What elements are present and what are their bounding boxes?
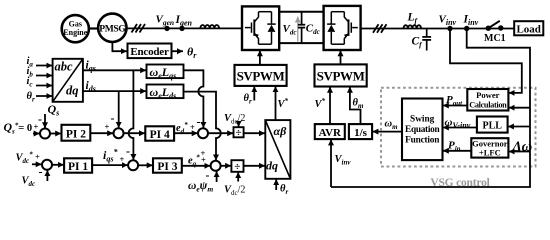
wire omega_m swing to 1/s	[372, 119, 402, 132]
wire PI3 to sum F	[182, 165, 211, 167]
wire divider1 to ab/dq	[244, 132, 265, 134]
svg-text:+: +	[105, 122, 110, 132]
svg-text:Igen: Igen	[175, 14, 193, 28]
wire Pout power calc to swing	[443, 94, 468, 108]
svg-text:Iinv: Iinv	[463, 14, 479, 28]
svg-text:SVPWM: SVPWM	[317, 69, 365, 84]
svg-text:Pout: Pout	[446, 94, 463, 108]
svg-text:PMSG: PMSG	[99, 23, 126, 34]
encoder output theta_r	[172, 45, 198, 61]
gas engine	[62, 15, 89, 42]
svg-text:iqs: iqs	[86, 59, 96, 73]
IGBT rectifier	[245, 12, 259, 45]
PLL block	[477, 117, 508, 133]
svg-text:Load: Load	[516, 24, 540, 36]
wire iqs	[83, 59, 146, 73]
wire PMSG to encoder	[112, 42, 126, 51]
svg-text:Vgen: Vgen	[156, 14, 175, 28]
wire omega_e L_qs to sum C (hop at ids row)	[184, 70, 204, 128]
svg-text:Δω: Δω	[512, 139, 533, 155]
node Vgen	[156, 14, 175, 32]
wire Vinv feedback into AVR	[331, 139, 351, 187]
encoder block	[128, 44, 172, 59]
wire Pin governor to swing	[443, 140, 472, 154]
PI 1 block	[64, 158, 92, 173]
summing junction D	[42, 160, 52, 170]
PI 2 block	[62, 125, 91, 141]
svg-text:Qs*= 0: Qs*= 0	[4, 120, 33, 136]
wire A to PI2	[50, 133, 61, 135]
wire V* AVR to SVPWM2	[315, 87, 331, 124]
summing junction E	[128, 160, 138, 170]
label Vdc/2 top	[224, 113, 245, 127]
svg-text:V*: V*	[278, 97, 289, 110]
wire divider2 to ab/dq	[244, 165, 266, 167]
input thetar	[27, 91, 53, 104]
wire PMSG to rectifier	[127, 27, 243, 29]
wire PI4 to sum C	[174, 132, 198, 134]
power calculation block	[467, 89, 508, 111]
svg-text:θm: θm	[353, 98, 364, 111]
wire omega_V-inv PLL to swing	[443, 117, 477, 131]
node Vinv	[439, 14, 457, 32]
input thetar to ab/dq	[276, 179, 288, 196]
swing equation function block	[402, 99, 443, 161]
svg-text:Cf: Cf	[412, 36, 424, 50]
svg-text:ωeLds: ωeLds	[150, 85, 177, 101]
IGBT inverter	[344, 12, 358, 45]
SVPWM inverter-side block	[315, 64, 367, 86]
svg-text:Qs: Qs	[48, 102, 60, 118]
PI 3 block	[153, 158, 182, 173]
wire C to divider1 (hop over Lds drop)	[208, 132, 233, 134]
svg-text:dq: dq	[266, 159, 278, 173]
svg-text:PI 2: PI 2	[66, 129, 86, 141]
wire ids drop to sum B	[111, 91, 119, 128]
VSG control dashed box	[381, 88, 536, 167]
wire F to divider2	[221, 165, 232, 167]
shaft wire	[89, 27, 98, 29]
svg-text:+: +	[120, 154, 125, 164]
three-phase slashes inverter side	[373, 24, 387, 33]
svg-text:PLL: PLL	[482, 121, 502, 132]
wire Iinv node feedback bus	[331, 31, 530, 187]
svg-text:ωm: ωm	[385, 119, 399, 132]
svg-text:+: +	[190, 122, 195, 132]
svg-text:Vdc: Vdc	[22, 176, 36, 189]
svg-text:+: +	[35, 152, 40, 162]
svg-text:Vdc/2: Vdc/2	[224, 185, 245, 198]
wire PI1 to sum E	[92, 164, 128, 166]
wire B to PI4	[124, 132, 146, 134]
svg-text:Swing: Swing	[410, 115, 435, 125]
svg-text:Engine: Engine	[63, 28, 87, 37]
svg-text:÷: ÷	[235, 127, 241, 139]
svg-text:-: -	[197, 115, 201, 129]
svg-text:θr: θr	[280, 184, 288, 197]
input Qs	[38, 102, 59, 128]
svg-text:÷: ÷	[234, 161, 240, 173]
PI 4 block	[145, 126, 174, 141]
node Igen	[175, 14, 193, 31]
wire E to PI3	[138, 164, 153, 166]
svg-text:Equation: Equation	[405, 125, 440, 135]
svg-text:+: +	[201, 148, 206, 158]
svg-text:1/s: 1/s	[354, 127, 368, 139]
svg-text:Power: Power	[476, 90, 500, 100]
capacitor Cdc	[298, 12, 320, 43]
load block	[514, 21, 543, 35]
svg-text:-: -	[111, 111, 115, 125]
svg-text:AVR: AVR	[319, 127, 342, 139]
input omega_e psi_m	[188, 168, 217, 194]
wire PI2 to sum B	[90, 132, 113, 134]
Vdc arrow gray	[283, 17, 298, 42]
dc bus rails	[279, 12, 323, 43]
svg-text:MC1: MC1	[484, 33, 506, 44]
svg-text:-: -	[38, 112, 42, 126]
svg-text:abc: abc	[55, 60, 74, 74]
input ic	[27, 76, 53, 89]
integrator 1/s block	[349, 124, 372, 139]
svg-text:ωeLqs: ωeLqs	[150, 65, 177, 81]
wire D to PI1	[52, 164, 64, 166]
svg-text:dq: dq	[66, 84, 79, 98]
svg-text:-: -	[39, 165, 43, 179]
wire Vdc* to sum D	[32, 163, 42, 165]
svg-text:αβ: αβ	[274, 124, 288, 138]
wire omega_e L_ds to sum F (hop at row1)	[184, 92, 221, 161]
svg-text:Encoder: Encoder	[130, 46, 169, 58]
inductor generator side	[200, 25, 219, 28]
label Vdc/2 bottom	[224, 172, 245, 197]
inductor Lf	[404, 12, 422, 29]
diode inverter	[327, 12, 344, 45]
wire theta_m 1/s to SVPWM2	[350, 87, 364, 124]
svg-text:θr: θr	[27, 91, 35, 104]
wire SVPWM1 to rectifier	[259, 50, 261, 65]
svg-text:Vinv: Vinv	[439, 14, 457, 28]
block omega_e L_ds	[147, 85, 184, 101]
wire ids	[83, 80, 146, 94]
summing junction B	[114, 128, 124, 138]
svg-text:PI 1: PI 1	[68, 161, 88, 173]
governor+LFC block	[471, 138, 508, 157]
branch to power calc input2	[509, 107, 530, 109]
svg-text:Cdc: Cdc	[306, 23, 320, 37]
svg-text:Vdc*: Vdc*	[16, 151, 34, 166]
svg-text:Lf: Lf	[407, 12, 419, 26]
svg-text:Pin: Pin	[448, 140, 461, 154]
svg-text:Vdc/2: Vdc/2	[224, 113, 245, 126]
input ib	[27, 66, 53, 79]
svg-text:θr: θr	[187, 45, 197, 61]
diode rectifier	[259, 12, 276, 45]
svg-text:θr: θr	[244, 93, 252, 106]
AVR block	[315, 124, 345, 139]
summing junction C	[198, 128, 208, 138]
contactor MC1	[484, 21, 506, 44]
input thetar to SVPWM1	[244, 86, 255, 105]
inverter block	[324, 6, 361, 50]
svg-text:PI 4: PI 4	[150, 129, 170, 141]
svg-text:Vinv: Vinv	[335, 154, 352, 167]
svg-text:Calculation: Calculation	[469, 101, 507, 110]
divider block 2	[231, 160, 243, 173]
svg-text:Vdc: Vdc	[283, 23, 297, 37]
svg-text:Function: Function	[405, 136, 440, 146]
abc/dq transform block	[53, 59, 83, 102]
summing junction A	[40, 129, 50, 139]
generator PMSG	[98, 14, 126, 42]
svg-text:ωV-inv: ωV-inv	[445, 117, 471, 131]
svg-text:-: -	[126, 144, 130, 158]
wire V* ab/dq to SVPWM1	[276, 86, 289, 120]
three-phase slashes generator side	[132, 24, 146, 33]
branch to PLL	[508, 126, 530, 128]
wire inverter to filter	[361, 28, 515, 30]
alphabeta/dq block	[265, 120, 290, 179]
input Vdc measured	[22, 165, 48, 189]
svg-text:SVPWM: SVPWM	[237, 69, 285, 84]
divider block 1	[234, 127, 244, 139]
svg-text:ωeψm: ωeψm	[188, 180, 213, 194]
branch to governor, delta omega	[509, 139, 532, 155]
svg-text:V*: V*	[315, 97, 326, 110]
input ia	[27, 56, 53, 69]
summing junction F	[211, 161, 221, 171]
SVPWM rectifier-side block	[235, 65, 287, 86]
wire SVPWM2 to inverter	[340, 50, 342, 64]
block omega_e L_qs	[147, 65, 184, 81]
wire iqs drop with hop to sum E	[129, 70, 134, 160]
svg-text:ids: ids	[86, 80, 96, 94]
svg-text:-: -	[206, 168, 210, 182]
svg-text:+LFC: +LFC	[479, 148, 501, 158]
capacitor Cf	[412, 29, 432, 51]
rectifier block	[242, 6, 279, 50]
node Iinv	[463, 14, 479, 32]
svg-text:iqs*: iqs*	[103, 148, 118, 164]
wire Qs* into sum A	[33, 133, 40, 135]
svg-text:PI 3: PI 3	[157, 161, 177, 173]
wire Vinv node to power calc	[450, 31, 522, 93]
